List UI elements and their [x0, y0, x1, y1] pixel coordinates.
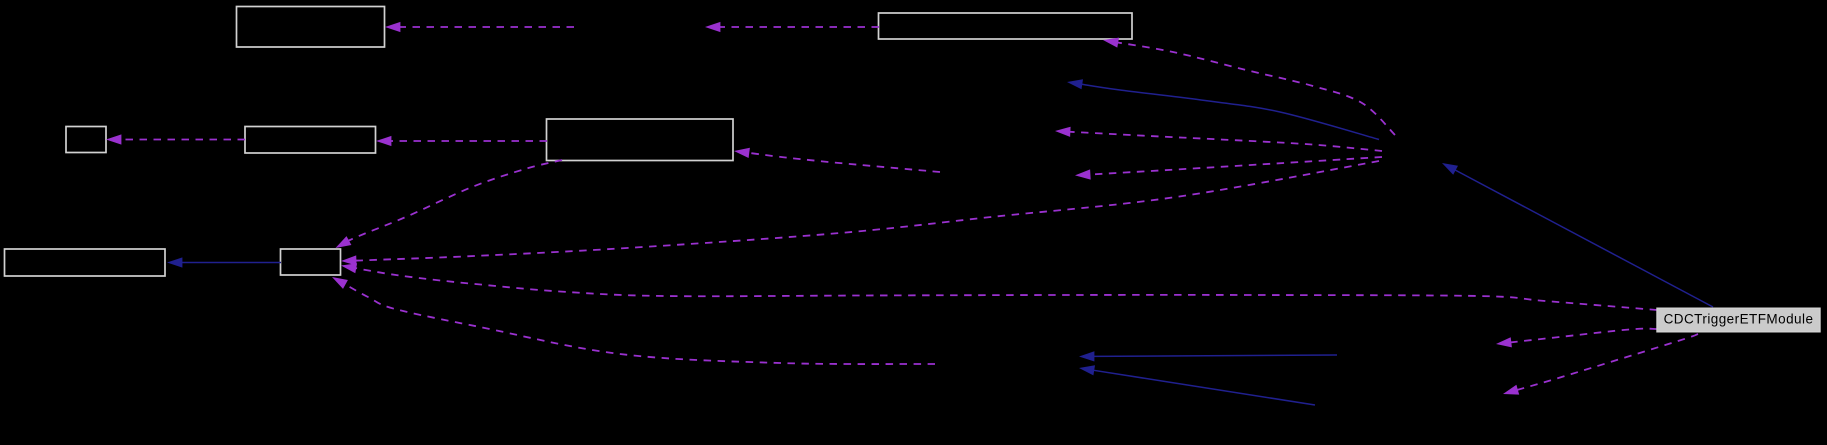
dashed edge CDCTriggerETFModule to hidden node lower: [1503, 334, 1698, 395]
blue edge hidden to hidden node mid 2: [1079, 365, 1315, 405]
dashed edge hub to hidden node c: [1075, 157, 1382, 180]
blue edge CDCTriggerETFModule to hub: [1442, 163, 1713, 307]
blue edge box G to box F: [167, 257, 281, 267]
dashed edge hidden node to box G: [332, 277, 935, 364]
dashed edge box E to box G: [336, 160, 563, 248]
node box G (bottom small hub): [281, 249, 341, 275]
node box B (top-middle): [879, 13, 1133, 39]
node box A (top-left, 2-line label hidden): [237, 7, 385, 48]
dashed edge box B to hidden node: [705, 22, 879, 32]
dashed edge hidden node to box E: [734, 148, 940, 172]
node box D (mid-left): [245, 127, 376, 154]
node box F (bottom-left wide): [5, 249, 166, 276]
node box C (small left): [66, 127, 106, 153]
svg-text:CDCTriggerETFModule: CDCTriggerETFModule: [1664, 312, 1814, 327]
dashed edge hub to box G: [341, 161, 1379, 266]
dashed edge hub to box B: [1103, 38, 1395, 135]
dashed edge CDCTriggerETFModule to hidden node: [1496, 329, 1657, 348]
dashed edge box D to box C: [106, 134, 245, 144]
node box E (middle, 2-line label hidden): [547, 119, 734, 161]
blue edge hidden to hidden node mid: [1079, 351, 1337, 361]
node box CDCTriggerETFModule: [1657, 308, 1820, 332]
blue edge hub to hidden node a: [1067, 79, 1379, 139]
dashed edge hidden-node to box A: [385, 22, 574, 32]
dashed edge box E to box D: [376, 136, 547, 146]
dashed edge CDCTriggerETFModule to box G: [341, 263, 1657, 310]
dashed edge hub to hidden node b: [1055, 127, 1382, 151]
